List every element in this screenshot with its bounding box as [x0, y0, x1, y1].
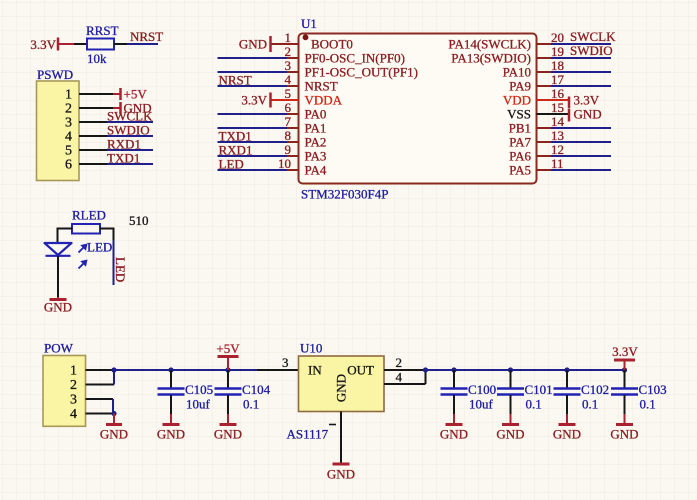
svg-text:9: 9 [285, 142, 292, 157]
svg-text:OUT: OUT [347, 363, 374, 378]
svg-text:10uf: 10uf [186, 397, 211, 412]
svg-text:2: 2 [285, 44, 292, 59]
svg-text:C100: C100 [468, 382, 496, 397]
svg-text:PA6: PA6 [509, 149, 531, 164]
svg-text:GND: GND [44, 300, 72, 315]
svg-text:SWDIO: SWDIO [107, 123, 150, 138]
svg-text:2: 2 [396, 355, 403, 370]
svg-text:AS1117: AS1117 [287, 427, 329, 442]
svg-text:+5V: +5V [124, 87, 148, 102]
svg-text:20: 20 [551, 30, 564, 45]
svg-text:15: 15 [551, 100, 564, 115]
svg-text:U1: U1 [301, 16, 317, 31]
svg-text:17: 17 [551, 72, 565, 87]
svg-text:GND: GND [610, 427, 638, 442]
svg-text:18: 18 [551, 58, 564, 73]
svg-text:6: 6 [285, 100, 292, 115]
svg-text:SWCLK: SWCLK [107, 109, 153, 124]
svg-text:GND: GND [553, 427, 581, 442]
svg-text:GND: GND [214, 427, 242, 442]
svg-text:PA13(SWDIO): PA13(SWDIO) [451, 51, 531, 66]
svg-text:C101: C101 [525, 382, 553, 397]
svg-text:LED: LED [113, 257, 128, 282]
svg-text:3: 3 [65, 116, 72, 131]
svg-text:PA7: PA7 [509, 135, 531, 150]
svg-text:VDD: VDD [503, 93, 531, 108]
svg-text:C105: C105 [185, 382, 213, 397]
svg-text:TXD1: TXD1 [219, 129, 252, 144]
svg-text:11: 11 [551, 156, 564, 171]
svg-text:PA10: PA10 [503, 65, 531, 80]
svg-text:RLED: RLED [72, 208, 106, 223]
svg-text:PF0-OSC_IN(PF0): PF0-OSC_IN(PF0) [305, 51, 405, 66]
svg-text:GND: GND [574, 107, 602, 122]
svg-text:3.3V: 3.3V [574, 93, 600, 108]
svg-text:VDDA: VDDA [305, 93, 343, 108]
svg-text:PA0: PA0 [305, 107, 327, 122]
svg-text:19: 19 [551, 44, 564, 59]
svg-text:0.1: 0.1 [640, 397, 656, 412]
svg-text:RXD1: RXD1 [219, 143, 253, 158]
svg-text:PA9: PA9 [509, 79, 531, 94]
svg-text:4: 4 [285, 72, 292, 87]
svg-text:4: 4 [70, 407, 77, 422]
svg-text:4: 4 [396, 370, 403, 385]
svg-text:GND: GND [157, 427, 185, 442]
svg-text:PA2: PA2 [305, 135, 327, 150]
svg-text:16: 16 [551, 86, 565, 101]
svg-text:13: 13 [551, 128, 564, 143]
svg-text:PA1: PA1 [305, 121, 327, 136]
svg-text:STM32F030F4P: STM32F030F4P [301, 187, 388, 202]
svg-text:7: 7 [285, 114, 292, 129]
svg-text:1: 1 [70, 364, 77, 379]
svg-text:4: 4 [65, 130, 72, 145]
svg-text:RXD1: RXD1 [107, 137, 141, 152]
svg-text:510: 510 [129, 213, 149, 228]
svg-text:2: 2 [70, 378, 77, 393]
svg-text:2: 2 [65, 102, 72, 117]
svg-text:GND: GND [440, 427, 468, 442]
svg-text:RRST: RRST [86, 23, 119, 38]
svg-text:PF1-OSC_OUT(PF1): PF1-OSC_OUT(PF1) [305, 65, 418, 80]
svg-text:LED: LED [87, 240, 112, 255]
svg-text:BOOT0: BOOT0 [311, 37, 353, 52]
svg-text:PA3: PA3 [305, 149, 327, 164]
svg-text:0.1: 0.1 [243, 397, 259, 412]
svg-text:3.3V: 3.3V [241, 93, 267, 108]
svg-text:PA5: PA5 [509, 163, 531, 178]
svg-text:TXD1: TXD1 [107, 151, 140, 166]
svg-text:3.3V: 3.3V [612, 344, 638, 359]
svg-text:14: 14 [551, 114, 565, 129]
svg-text:VSS: VSS [507, 107, 531, 122]
svg-text:5: 5 [285, 86, 292, 101]
svg-text:8: 8 [285, 128, 292, 143]
svg-text:GND: GND [239, 37, 267, 52]
svg-text:0.1: 0.1 [526, 397, 542, 412]
svg-text:3.3V: 3.3V [30, 37, 56, 52]
svg-text:0.1: 0.1 [582, 397, 598, 412]
svg-text:GND: GND [496, 427, 524, 442]
svg-text:GND: GND [100, 427, 128, 442]
svg-text:C104: C104 [242, 382, 271, 397]
svg-text:SWDIO: SWDIO [570, 43, 613, 58]
svg-text:1: 1 [65, 88, 72, 103]
svg-text:U10: U10 [300, 341, 322, 356]
svg-text:6: 6 [65, 158, 72, 173]
svg-text:5: 5 [65, 144, 72, 159]
svg-text:C102: C102 [581, 382, 609, 397]
svg-text:SWCLK: SWCLK [570, 29, 616, 44]
svg-text:3: 3 [70, 393, 77, 408]
svg-text:NRST: NRST [305, 79, 338, 94]
svg-text:POW: POW [44, 341, 74, 356]
svg-text:10: 10 [278, 156, 291, 171]
svg-text:10k: 10k [87, 51, 107, 66]
svg-text:LED: LED [219, 157, 244, 172]
svg-text:GND: GND [334, 374, 349, 402]
svg-text:PA4: PA4 [305, 163, 327, 178]
svg-text:NRST: NRST [130, 29, 163, 44]
svg-text:12: 12 [551, 142, 564, 157]
svg-text:10uf: 10uf [469, 397, 494, 412]
svg-text:GND: GND [327, 467, 355, 482]
svg-text:PB1: PB1 [509, 121, 531, 136]
svg-text:1: 1 [285, 30, 292, 45]
svg-text:PA14(SWCLK): PA14(SWCLK) [448, 37, 531, 52]
svg-text:C103: C103 [639, 382, 667, 397]
svg-text:NRST: NRST [219, 73, 252, 88]
svg-text:PSWD: PSWD [37, 67, 73, 82]
svg-text:3: 3 [285, 58, 292, 73]
svg-text:3: 3 [282, 355, 289, 370]
svg-text:+5V: +5V [216, 341, 240, 356]
svg-text:IN: IN [308, 363, 322, 378]
